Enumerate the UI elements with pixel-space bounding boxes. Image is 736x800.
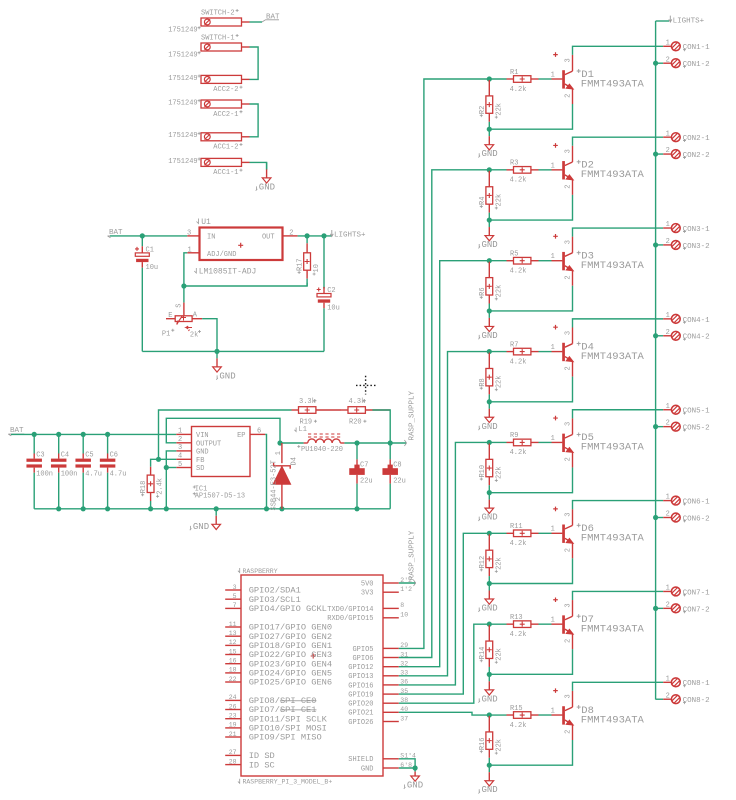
junction T2 emitter node: [487, 217, 492, 222]
ground (channel 8): [478, 765, 497, 795]
wire T2 collector to CON2-1: [573, 137, 664, 146]
wire T4 collector to CON4-1: [573, 319, 664, 328]
svg-text:SWITCH-2: SWITCH-2: [201, 10, 235, 18]
pin 18 GPIO24/GPIO GEN5: [225, 667, 332, 679]
svg-text:ACC2-1: ACC2-1: [213, 111, 238, 119]
svg-text:3: 3: [233, 584, 237, 591]
junction cap top x58.7: [56, 432, 61, 437]
resistor R5 4.3k: [489, 251, 551, 276]
transistor T2 FMMT493ATA: [551, 143, 645, 195]
svg-text:LM1085IT-ADJ: LM1085IT-ADJ: [199, 268, 257, 277]
ground (channel 7): [478, 674, 497, 704]
svg-text:2: 2: [564, 185, 572, 189]
junction T3 base node: [487, 258, 492, 263]
svg-text:26: 26: [229, 703, 237, 710]
svg-text:18: 18: [229, 667, 237, 674]
connector ACC2-2 (1751249): [168, 75, 249, 95]
svg-text:GPIO5: GPIO5: [352, 646, 373, 654]
junction R17 top: [305, 233, 310, 238]
wire T3 collector to CON3-1: [573, 228, 664, 237]
svg-text:1751249: 1751249: [168, 99, 197, 107]
wire rail to CON2-2: [656, 153, 664, 155]
svg-text:5V0: 5V0: [361, 580, 374, 588]
pin 28 ID SC: [225, 758, 275, 770]
wire T7 emitter to R14: [489, 649, 572, 674]
wire T7 collector to CON7-1: [573, 591, 664, 600]
connector pin CON2-2: [663, 147, 709, 160]
junction T1 base node: [487, 76, 492, 81]
wire U1 ADJ down: [184, 253, 187, 286]
wire T5 emitter to R10: [489, 467, 572, 492]
wire rail to CON3-2: [656, 244, 664, 246]
svg-text:2: 2: [666, 420, 670, 428]
pin 8 TXD0/GPIO14: [327, 602, 404, 614]
svg-text:1: 1: [188, 247, 192, 255]
resistor R2 22k: [479, 80, 504, 129]
svg-text:10u: 10u: [327, 305, 340, 313]
svg-text:R11: R11: [510, 523, 523, 531]
svg-text:RASPBERRY: RASPBERRY: [243, 568, 278, 575]
resistor R6 22k: [479, 262, 504, 311]
connector pin CON4-2: [663, 329, 709, 342]
svg-text:2: 2: [564, 94, 572, 98]
junction FB node: [156, 457, 161, 462]
svg-text:19: 19: [229, 722, 237, 729]
net label BAT (dc-dc): [8, 427, 24, 436]
wire GND pin: [399, 767, 415, 769]
svg-text:2: 2: [178, 436, 182, 444]
junction T5 base node: [487, 440, 492, 445]
svg-text:12: 12: [229, 639, 237, 646]
svg-text:4.2k: 4.2k: [510, 631, 527, 639]
svg-text:GND: GND: [482, 331, 498, 341]
pin 36 GPIO16: [348, 679, 408, 691]
wire T1 emitter to R2: [489, 104, 572, 129]
svg-text:ADJ/GND: ADJ/GND: [207, 251, 236, 259]
svg-text:1: 1: [551, 526, 555, 534]
ground (channel 2): [478, 220, 497, 250]
junction T8 base node: [487, 712, 492, 717]
svg-text:22u: 22u: [393, 478, 406, 486]
wire SHIELD to ground: [399, 759, 415, 768]
svg-text:2: 2: [564, 457, 572, 461]
svg-text:1: 1: [551, 162, 555, 170]
junction C8 top: [388, 440, 393, 445]
pin 21 GPIO9/SPI MISO: [225, 731, 322, 743]
wire FB to R18: [151, 459, 177, 467]
wire SWITCH-2 to BAT: [250, 21, 263, 23]
svg-text:GND: GND: [196, 449, 209, 457]
junction rail CON2-2: [653, 151, 658, 156]
resistor R19 3.3k: [292, 398, 342, 427]
svg-text:FMMT493ATA: FMMT493ATA: [581, 169, 645, 181]
svg-text:22k: 22k: [495, 466, 503, 479]
svg-text:C7: C7: [360, 461, 368, 469]
svg-text:1: 1: [666, 675, 670, 683]
transistor T3 FMMT493ATA: [551, 234, 645, 286]
svg-text:R16: R16: [479, 738, 487, 751]
junction T5 emitter node: [487, 490, 492, 495]
svg-text:7: 7: [233, 602, 237, 609]
svg-text:IN: IN: [207, 234, 215, 242]
wire T3 emitter to R6: [489, 286, 572, 311]
svg-text:GPIO16: GPIO16: [348, 682, 373, 690]
svg-text:GND: GND: [193, 522, 209, 532]
svg-text:RASPBERRY_PI_3_MODEL_B+: RASPBERRY_PI_3_MODEL_B+: [243, 779, 333, 786]
wire BAT to U1 IN: [110, 235, 187, 237]
svg-text:CON4-2: CON4-2: [683, 334, 710, 342]
connector pin CON1-1: [663, 39, 710, 52]
svg-text:R17: R17: [297, 258, 305, 271]
svg-text:22k: 22k: [495, 739, 503, 752]
wire EP to ground: [265, 434, 266, 508]
connector pin CON7-2: [663, 601, 709, 614]
pin 23 GPIO11/SPI SCLK: [225, 713, 327, 725]
junction C2 top: [321, 233, 326, 238]
svg-text:3: 3: [178, 444, 182, 452]
net label RASP_SUPPLY (pi 5V0): [408, 530, 416, 586]
svg-text:ACC1-1: ACC1-1: [213, 169, 238, 177]
wire node to L1: [280, 442, 304, 444]
svg-text:3: 3: [564, 331, 572, 335]
wire GND pin down: [166, 451, 176, 468]
svg-text:1: 1: [551, 707, 555, 715]
connector ACC1-2 (1751249): [168, 132, 249, 152]
junction C1 top: [140, 233, 145, 238]
ground (switch section): [256, 162, 275, 192]
svg-text:GPIO19: GPIO19: [348, 692, 373, 700]
connector pin CON6-2: [663, 511, 709, 524]
transistor T4 FMMT493ATA: [551, 325, 645, 377]
resistor R18 2.4k: [140, 467, 165, 509]
svg-text:37: 37: [400, 715, 408, 722]
svg-text:LIGHTS+: LIGHTS+: [334, 232, 366, 240]
svg-text:100n: 100n: [36, 471, 53, 479]
transistor T1 FMMT493ATA: [551, 52, 645, 104]
svg-text:RASP_SUPPLY: RASP_SUPPLY: [408, 530, 416, 580]
svg-text:SWITCH-1: SWITCH-1: [201, 35, 235, 43]
junction T4 base node: [487, 349, 492, 354]
wire P1 to ground rail: [202, 319, 217, 352]
svg-text:R12: R12: [479, 556, 487, 569]
pin 7 GPIO4/GPIO GCKL: [225, 602, 327, 614]
resistor R11 4.3k: [489, 523, 551, 548]
svg-text:GPIO26: GPIO26: [348, 719, 373, 727]
svg-text:GPIO20: GPIO20: [348, 701, 373, 709]
svg-text:2: 2: [666, 511, 670, 519]
svg-text:1: 1: [551, 71, 555, 79]
svg-text:R9: R9: [510, 432, 518, 440]
wire ACC1-1 to ground: [250, 162, 267, 169]
wire rail to CON6-2: [656, 517, 664, 519]
svg-text:RASP_SUPPLY: RASP_SUPPLY: [408, 390, 416, 440]
svg-text:GND: GND: [361, 765, 374, 773]
resistor R8 22k: [479, 353, 504, 402]
junction ground rail x150.6: [148, 506, 153, 511]
svg-text:4.2k: 4.2k: [510, 540, 527, 548]
svg-text:2: 2: [666, 56, 670, 64]
capacitor C7 22u (polarized): [349, 443, 372, 509]
wire T4 emitter to R8: [489, 377, 572, 402]
svg-text:2k: 2k: [190, 331, 198, 339]
resistor R15 4.3k: [489, 705, 551, 730]
svg-text:R20: R20: [349, 419, 362, 427]
svg-text:CON7-2: CON7-2: [683, 606, 710, 614]
resistor R17 10: [297, 243, 322, 286]
svg-text:GND: GND: [407, 781, 423, 791]
connector ACC2-1 (1751249): [168, 99, 249, 119]
svg-text:28: 28: [229, 758, 237, 765]
svg-text:22k: 22k: [495, 285, 503, 298]
svg-text:C8: C8: [393, 461, 401, 469]
connector pin CON5-1: [663, 403, 710, 416]
pin 13 GPIO27/GPIO GEN2: [225, 630, 332, 642]
svg-text:1: 1: [666, 221, 670, 229]
svg-text:1: 1: [275, 451, 283, 455]
net label RASP_SUPPLY (dc-dc): [404, 390, 416, 446]
pin 5 GPIO3/SCL1: [225, 593, 301, 605]
svg-text:R14: R14: [479, 647, 487, 660]
svg-text:22k: 22k: [495, 376, 503, 389]
wire GPIO20 to T7 base: [399, 624, 490, 703]
svg-text:SSB44-E3-52T: SSB44-E3-52T: [270, 460, 278, 510]
svg-text:R15: R15: [510, 705, 523, 713]
LIGHTS+ rail: [655, 21, 657, 700]
capacitor C4 100n: [51, 434, 78, 508]
resistor R1 4.3k: [489, 69, 551, 94]
pin 3 GPIO2/SDA1: [225, 584, 301, 596]
pin 27 ID SD: [225, 749, 275, 761]
svg-text:R7: R7: [510, 341, 518, 349]
resistor R12 22k: [479, 534, 504, 583]
svg-text:R5: R5: [510, 251, 518, 259]
svg-text:OUT: OUT: [262, 234, 275, 242]
svg-text:E: E: [168, 312, 172, 320]
svg-text:R1: R1: [510, 69, 518, 77]
svg-text:R18: R18: [140, 481, 148, 494]
junction ground rail: [214, 349, 219, 354]
transistor T6 FMMT493ATA: [551, 507, 645, 559]
svg-text:3: 3: [564, 149, 572, 153]
wire ADJ node to P1 wiper: [183, 286, 185, 303]
ground (channel 1): [478, 129, 497, 159]
junction ADJ node: [181, 283, 186, 288]
junction rail CON1-2: [653, 61, 658, 66]
svg-text:1751249: 1751249: [168, 52, 197, 60]
wire SWITCH-1 to ACC2-2: [250, 47, 259, 79]
svg-text:U1: U1: [201, 218, 211, 227]
svg-text:3: 3: [564, 513, 572, 517]
junction ground rail x83.2: [81, 506, 86, 511]
svg-text:GND: GND: [482, 604, 498, 614]
svg-text:3: 3: [564, 240, 572, 244]
junction ground rail x357: [354, 506, 359, 511]
wire OUTPUT over IC to node: [166, 418, 280, 443]
junction cap top x34.2: [32, 432, 37, 437]
svg-text:10: 10: [400, 612, 408, 619]
junction T1 emitter node: [487, 127, 492, 132]
pin 1'2 3V3: [361, 586, 412, 598]
svg-text:CON4-1: CON4-1: [683, 317, 711, 325]
connector pin CON1-2: [663, 56, 709, 69]
svg-text:CON6-1: CON6-1: [683, 499, 711, 507]
svg-text:GPIO12: GPIO12: [348, 664, 373, 672]
wire to C2: [323, 236, 325, 289]
svg-text:GPIO9/SPI MISO: GPIO9/SPI MISO: [249, 733, 322, 743]
svg-text:6: 6: [257, 428, 261, 436]
junction T8 emitter node: [487, 763, 492, 768]
wire BAT to VIN: [11, 433, 176, 435]
svg-text:4.2k: 4.2k: [510, 722, 527, 730]
svg-text:10u: 10u: [146, 264, 159, 272]
svg-text:FMMT493ATA: FMMT493ATA: [581, 714, 645, 726]
svg-text:2: 2: [564, 730, 572, 734]
resistor R9 4.3k: [489, 432, 551, 457]
junction rail CON4-2: [653, 333, 658, 338]
wire GPIO to T5 base: [399, 442, 490, 684]
connector SWITCH-2 (1751249): [168, 9, 249, 35]
svg-text:1751249: 1751249: [168, 132, 197, 140]
net label BAT (regulator): [108, 229, 124, 238]
resistor R16 22k: [479, 716, 504, 765]
svg-text:2: 2: [666, 329, 670, 337]
svg-text:2.4k: 2.4k: [157, 478, 165, 495]
pin 16 GPIO23/GPIO GEN4: [225, 658, 332, 670]
svg-text:GPIO25/GPIO GEN6: GPIO25/GPIO GEN6: [249, 678, 332, 688]
wire to R17: [306, 236, 308, 243]
junction ground rail x107.6: [105, 506, 110, 511]
svg-text:GND: GND: [482, 513, 498, 523]
svg-text:2: 2: [289, 229, 293, 237]
junction rail CON6-2: [653, 515, 658, 520]
svg-text:ACC2-2: ACC2-2: [213, 86, 238, 94]
svg-text:5: 5: [178, 461, 182, 469]
wire rail to CON4-2: [656, 335, 664, 337]
resistor R4 22k: [479, 171, 504, 220]
svg-text:R8: R8: [479, 378, 487, 386]
svg-text:22k: 22k: [495, 194, 503, 207]
resistor R20 4.3k: [341, 398, 390, 427]
svg-text:CON3-1: CON3-1: [683, 226, 711, 234]
svg-text:GND: GND: [482, 694, 498, 704]
ground (channel 6): [478, 584, 497, 614]
svg-text:3V3: 3V3: [361, 590, 374, 598]
wire T5 collector to CON5-1: [573, 410, 664, 419]
svg-text:3.3k: 3.3k: [299, 398, 316, 406]
wire SD pin: [166, 467, 176, 469]
svg-text:16: 16: [229, 658, 237, 665]
wire T8 collector to CON8-1: [573, 682, 664, 691]
svg-text:3: 3: [564, 422, 572, 426]
svg-text:1: 1: [666, 312, 670, 320]
svg-text:LIGHTS+: LIGHTS+: [673, 17, 705, 25]
svg-text:ID SC: ID SC: [249, 760, 275, 770]
svg-text:EP: EP: [237, 432, 245, 440]
svg-text:CON1-2: CON1-2: [683, 61, 710, 69]
pin S1'4 SHIELD: [348, 753, 416, 765]
pin 38 GPIO20: [348, 697, 408, 709]
svg-text:GND: GND: [259, 182, 275, 192]
svg-text:C5: C5: [85, 452, 93, 460]
wire rail to CON5-2: [656, 426, 664, 428]
capacitor C8 22u (polarized): [382, 443, 405, 509]
ground (regulator): [213, 351, 236, 381]
pin 11 GPIO17/GPIO GEN0: [225, 621, 332, 633]
junction rail CON7-2: [653, 606, 658, 611]
svg-text:GND: GND: [482, 422, 498, 432]
junction T7 base node: [487, 622, 492, 627]
svg-text:4.3k: 4.3k: [349, 398, 366, 406]
svg-text:SD: SD: [196, 465, 204, 473]
svg-text:C3: C3: [36, 452, 44, 460]
resistor R3 4.3k: [489, 160, 551, 185]
wire GPIO to T1 base: [399, 79, 490, 648]
svg-text:BAT: BAT: [266, 14, 280, 22]
svg-text:3: 3: [187, 229, 191, 237]
ground (channel 3): [478, 311, 497, 341]
svg-text:C6: C6: [110, 452, 118, 460]
svg-text:22: 22: [229, 676, 237, 683]
junction T6 emitter node: [487, 581, 492, 586]
svg-text:15: 15: [229, 648, 237, 655]
svg-text:2: 2: [564, 639, 572, 643]
svg-text:4.2k: 4.2k: [510, 86, 527, 94]
junction rail CON5-2: [653, 424, 658, 429]
wire rail end to CON8-2: [656, 698, 664, 700]
svg-text:11: 11: [229, 621, 237, 628]
junction cap top x107.6: [105, 432, 110, 437]
pin 10 RXD0/GPIO15: [327, 612, 408, 624]
ground (channel 5): [478, 493, 497, 523]
resistor R10 22k: [479, 443, 504, 492]
svg-text:1751249: 1751249: [168, 75, 197, 83]
wire GND node to rail: [165, 468, 167, 509]
svg-text:SHIELD: SHIELD: [348, 756, 373, 764]
svg-text:4.7u: 4.7u: [85, 471, 102, 479]
svg-text:ACC1-2: ACC1-2: [213, 144, 238, 152]
svg-text:C2: C2: [327, 287, 335, 295]
connector SWITCH-1 (1751249): [168, 34, 249, 60]
transistor T5 FMMT493ATA: [551, 416, 645, 468]
connector pin CON2-1: [663, 130, 710, 143]
connector pin CON5-2: [663, 420, 709, 433]
pin 6'8 GND: [361, 762, 412, 774]
junction pi ground: [413, 765, 418, 770]
svg-text:GND: GND: [219, 371, 235, 381]
wire R20 to output node: [372, 410, 390, 443]
svg-text:1: 1: [666, 130, 670, 138]
net label LIGHTS+ (rail): [669, 16, 705, 26]
connector pin CON7-1: [663, 585, 710, 598]
svg-text:1: 1: [666, 403, 670, 411]
svg-text:4: 4: [178, 453, 182, 461]
svg-text:CON6-2: CON6-2: [683, 515, 710, 523]
wire T6 collector to CON6-1: [573, 501, 664, 510]
svg-text:GPIO21: GPIO21: [348, 710, 373, 718]
trimmer P1 2k: [162, 303, 202, 340]
frame origin crosshair: [356, 376, 376, 395]
junction T2 base node: [487, 167, 492, 172]
junction ground rail x266.5: [264, 506, 269, 511]
svg-text:2: 2: [666, 238, 670, 246]
capacitor C3 100n: [26, 434, 53, 508]
svg-text:CON2-1: CON2-1: [683, 135, 711, 143]
wire L1 to RASP_SUPPLY: [344, 442, 406, 444]
junction C7 top: [354, 440, 359, 445]
inductor L1 PU1040-220: [294, 426, 344, 454]
svg-text:4.2k: 4.2k: [510, 177, 527, 185]
svg-text:5: 5: [233, 593, 237, 600]
